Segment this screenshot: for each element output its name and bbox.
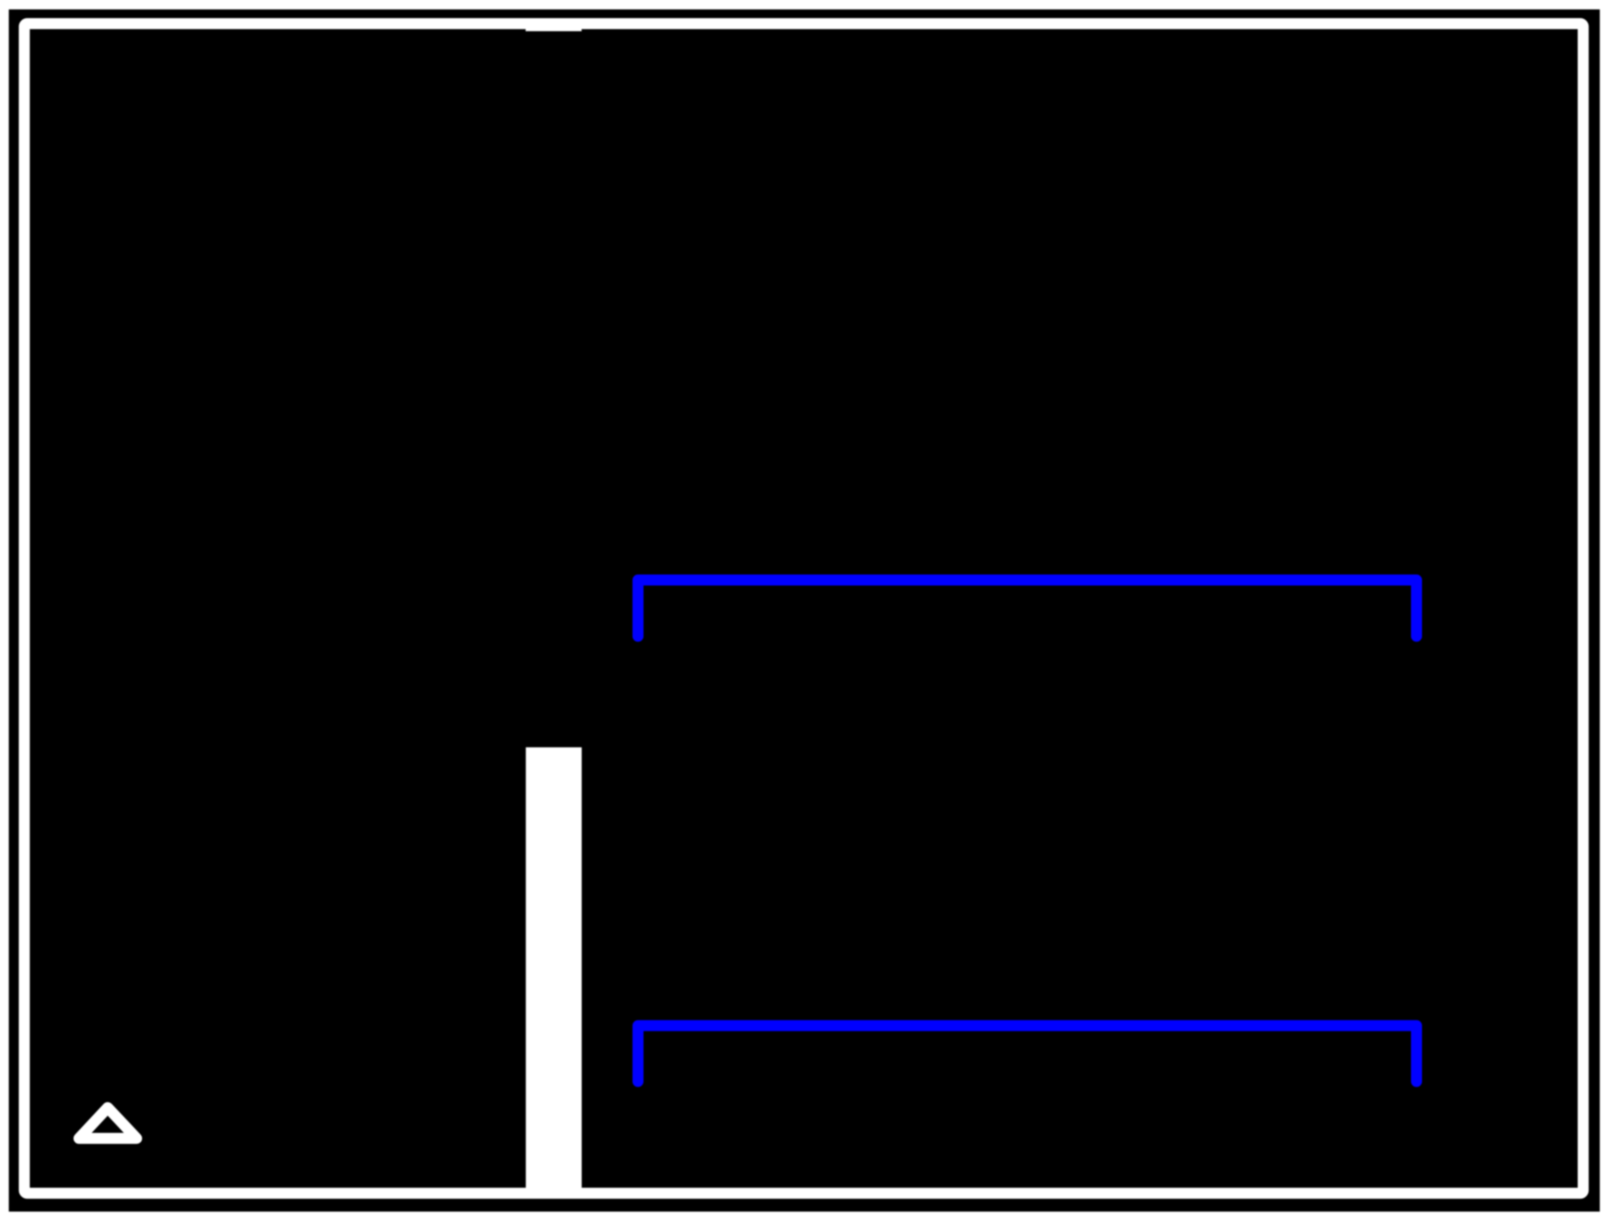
upper blue bracket wall	[638, 580, 1417, 636]
lower blue bracket wall	[638, 1026, 1417, 1082]
wall stub at top (top end of vertical wall)	[526, 26, 582, 31]
player triangle	[79, 1108, 137, 1139]
vertical white wall	[526, 747, 582, 1197]
